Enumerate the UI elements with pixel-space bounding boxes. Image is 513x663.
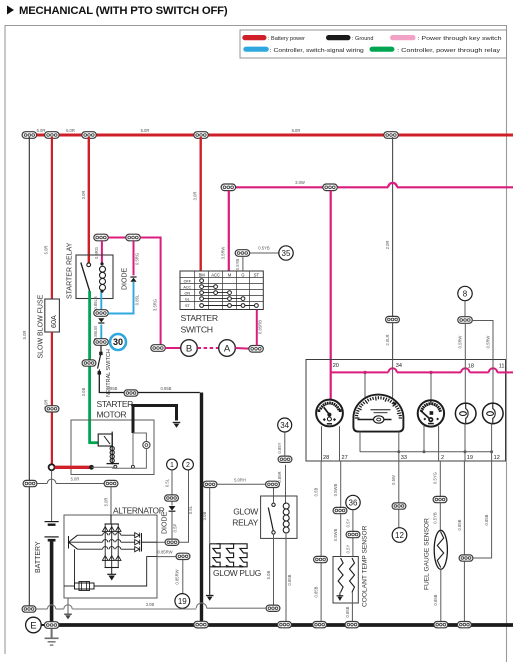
wire thick black engine ground drop [200,393,203,624]
svg-text:5.0R: 5.0R [22,331,27,340]
svg-text:34: 34 [396,363,402,369]
wire alternator case ground [67,598,69,614]
starter relay coil top node [100,262,103,265]
svg-text:DIODE: DIODE [122,268,129,291]
svg-text:0.5RW: 0.5RW [485,336,490,349]
wire pink key bus [235,186,388,188]
svg-text:0.5W: 0.5W [391,475,396,485]
svg-text:34: 34 [280,421,289,430]
svg-text:0.85B: 0.85B [433,594,438,605]
connector on pin34 wire [386,316,400,322]
svg-text:0.5WB: 0.5WB [333,529,338,542]
neutral switch contact lower [98,371,101,374]
wire pink pin20 drop to gauge [330,191,332,402]
legend ground swatch [326,35,351,40]
svg-text:12: 12 [395,531,404,540]
glow relay blade (open) [268,508,273,531]
node E (earth) [26,617,42,633]
node 2 (controller pin) [183,459,194,470]
svg-text:ST: ST [254,273,260,278]
junction ring fuse-battery-starter [49,464,55,470]
glow relay contact top [272,503,275,506]
wire diode to L run [171,512,173,539]
wire pink into B [165,347,180,349]
svg-text:0.85RW: 0.85RW [175,569,180,584]
wire gray tach right feed [392,360,394,399]
svg-text:0.5RG: 0.5RG [134,253,139,265]
svg-text:COOLANT TEMP SENSOR: COOLANT TEMP SENSOR [362,525,369,607]
svg-text:M: M [228,273,232,278]
junction dot gauge3 feed [429,371,432,374]
wire node36 to sensor [352,510,354,557]
alternator box [64,515,157,598]
junction dot common x424 [423,450,426,453]
wire pink link to diode tap [108,237,126,239]
alternator internals (bridge, stator, regulator) [64,515,157,591]
svg-text:0.5P: 0.5P [173,523,178,532]
wire IG to node 19 [182,560,184,594]
svg-text:30: 30 [113,337,123,347]
node 34 (controller pin) [278,418,292,432]
wire engine line [36,608,47,610]
svg-text:5.0R: 5.0R [66,128,75,133]
wire black neutral switch to ground run [99,375,200,393]
wire pin2 to fuel sensor [439,461,441,531]
svg-text:FUEL GAUGE SENSOR: FUEL GAUGE SENSOR [424,518,431,590]
wire red fuse drop upper [51,137,53,300]
indicator lamp L1 [455,403,476,424]
svg-text:5.0R: 5.0R [292,128,301,133]
svg-text:0.5B: 0.5B [313,487,318,496]
gauge G1 (oil pressure) [316,400,343,427]
wire tach bottom-right pin33 [398,432,400,461]
svg-text:0.85RW: 0.85RW [157,550,172,555]
legend battery power swatch [242,35,266,40]
wire gray G link to 35 [250,252,279,254]
wire gauge3 right pin2 [438,426,440,461]
wire pin12 jog to pin19 run [473,461,492,558]
wire thick ground bus [45,623,513,627]
connector ground bus engine [194,621,209,628]
node 30 (controller pin) [110,334,126,350]
node 1 (controller pin) [167,459,178,470]
starter motor ground [173,423,181,428]
wire blue below diode [100,325,102,339]
svg-text:0.85LB: 0.85LB [93,296,98,309]
svg-text:0.85B: 0.85B [287,574,292,585]
legend box [240,30,507,58]
wire cluster internal common [360,451,492,453]
wire dashed B to A [198,347,219,349]
glow relay K2 box [261,496,297,538]
connector pin28 run [314,556,328,562]
wire gray lamp feed right [472,321,493,360]
connector neutral switch node [94,339,109,346]
wire gray lamp2 feed in cluster [492,360,494,404]
node 19 (controller pin) [175,594,190,609]
connector pin33 run [392,503,406,509]
svg-text:0.5YG: 0.5YG [433,472,438,484]
svg-text:0.5RG: 0.5RG [94,247,99,259]
battery B1 [45,522,59,541]
neutral switch contact upper [99,352,102,355]
svg-text:3.0W: 3.0W [295,180,305,185]
svg-text:GL: GL [185,297,190,301]
starter relay coil bottom node [100,290,103,293]
junction dot common x465 [464,450,467,453]
svg-text:20: 20 [333,363,339,369]
wire green relay output [88,291,91,444]
starter motor solenoid and motor [98,432,150,469]
svg-text:5.0R: 5.0R [37,128,46,133]
glow plugs [210,544,247,595]
wire pin19 ground run [463,461,465,621]
wire red fuse drop lower [51,332,53,465]
svg-text:5.0R: 5.0R [141,128,150,133]
alternator case ground symbol [64,614,72,619]
svg-text:5.0R: 5.0R [71,477,80,482]
wire pin27 to coolant sensor [340,461,342,557]
svg-text:60A: 60A [49,315,58,328]
svg-text:0.85B: 0.85B [484,514,489,525]
svg-text:: Controller, switch-signal wi: : Controller, switch-signal wiring [270,48,364,54]
svg-text:0.85RB: 0.85RB [258,320,263,334]
wire pink up to ST contact [256,306,258,346]
connector ground bus glow coil [278,622,292,628]
node 35 (controller pin) [279,246,293,260]
connector pink after A [249,346,263,353]
wire pin33 run [398,461,400,528]
connector pins19-12 junction [459,555,473,561]
svg-text:ACC: ACC [183,285,191,289]
starter relay fixed contact [87,263,91,267]
starter relay K1 box [76,255,113,299]
svg-text:0.5YB: 0.5YB [433,512,438,524]
svg-text:BATTERY: BATTERY [35,541,42,573]
wire thick battery negative [50,540,54,623]
fuel gauge sensor [434,530,447,569]
connector alternator feed right [104,480,118,486]
svg-text:35: 35 [282,249,291,258]
wire gray gauge3 feed [430,372,432,401]
node 8 (controller pin) [458,286,472,300]
connector pink relay coil tap [94,234,109,241]
legend controller relay power swatch [370,47,395,52]
title text [7,5,228,17]
wire alternator feed [37,483,47,485]
wire solenoid contact link [92,466,116,468]
svg-text:1: 1 [170,462,174,469]
svg-text:ACC: ACC [211,273,220,278]
svg-text:: Power through key switch: : Power through key switch [418,36,502,42]
connector ground bus pin19 [458,622,472,628]
svg-text:ST: ST [185,304,190,308]
wire pin28 ground run [320,461,322,621]
svg-text:: Controller, power through re: : Controller, power through relay [397,48,500,54]
wire gauge1 right pin27 [339,426,341,461]
connector ground bus coolant [345,622,359,628]
starter switch SW1 contact table [180,271,263,310]
svg-text:0.85L: 0.85L [134,294,139,305]
connector on fuse wire [45,406,59,412]
wire fuel sensor to ground bus [440,569,442,621]
wire blue from D2 to node [108,282,133,314]
svg-text:GLOWRELAY: GLOWRELAY [232,507,258,528]
svg-text:MECHANICAL (WITH PTO SWITCH OF: MECHANICAL (WITH PTO SWITCH OFF) [19,5,228,17]
neutral switch blade [98,355,101,369]
junction dot solenoid contact [89,465,94,470]
svg-text:0.85Y: 0.85Y [277,442,282,453]
wire red battery bus [23,134,513,137]
glow plug ground [206,596,214,601]
starter motor box [71,420,154,475]
svg-text:5.0R: 5.0R [103,498,108,507]
svg-text:SLOW BLOW FUSE: SLOW BLOW FUSE [38,294,45,358]
svg-text:0.5YB: 0.5YB [235,259,240,271]
wire thick motor ground loop [133,406,177,434]
svg-text:GLOW PLUG: GLOW PLUG [213,568,261,578]
junction dot tach feed [363,371,366,374]
wire gray tach left feed [364,372,366,398]
wire thick red battery to solenoid [55,466,91,469]
connector bus B4 [194,132,209,139]
wire glow relay contact bottom [273,534,275,605]
earth ground symbol [45,629,59,645]
wire pink diode drop [133,241,135,275]
wire pink gauge bus [331,371,389,373]
svg-text:0.5YB: 0.5YB [258,246,270,251]
connector glow relay feed [266,481,280,487]
svg-text:19: 19 [467,455,473,461]
connector bus B5 [384,132,399,139]
svg-text:11: 11 [499,364,505,370]
wire battery positive [51,470,53,521]
wire lamp1 bottom pin19 [464,423,466,461]
wire gray lamp feed left [464,323,466,359]
svg-text:36: 36 [349,498,358,507]
slow blow fuse F1 60A box [45,299,60,332]
wire gray lamp1 feed in cluster [464,360,466,404]
connector pink bus left end [221,184,236,191]
connector glow relay coil feed [278,456,292,462]
connector ground bus battery [44,622,59,629]
svg-text:: Ground: : Ground [352,36,373,42]
junction dot common x398 [397,450,400,453]
junction dot common x491 [490,450,493,453]
svg-text:3.5RG: 3.5RG [152,299,157,311]
connector node8 [458,317,473,324]
connector left engine line [22,606,36,612]
wire gray node8 to connector [464,301,466,317]
wire node1 to diode [171,501,173,505]
svg-text:5.0B: 5.0B [266,570,271,579]
wire pink coil drop [101,241,103,264]
connector bus B2 [45,132,60,139]
wire glow relay coil to ground bus [285,533,287,621]
diode D2 (up) [130,277,136,282]
svg-text:0.5L: 0.5L [164,478,169,487]
wire pink to ST-link corner [140,238,160,345]
svg-text:19: 19 [178,597,187,606]
wire gray G column drop [242,256,244,271]
connector alternator L output [165,539,179,545]
svg-text:0.5Y: 0.5Y [345,544,350,553]
svg-text:ALTERNATOR: ALTERNATOR [113,506,165,516]
wire black to neutral switch [100,345,102,352]
connector pink diode tap [126,234,141,241]
starter relay blade (open) [81,263,90,292]
wire green into solenoid [90,441,99,444]
diode D3 (down) [169,506,176,511]
svg-text:2.0LR: 2.0LR [385,334,390,345]
connector pink bus pin20 tap [323,184,338,191]
wire glow relay contact top feed [273,488,275,504]
coolant temp sensor [333,557,358,604]
connector bus B3 [82,132,97,139]
svg-text:3.0B: 3.0B [146,602,155,607]
connector ground bus fuel [434,622,448,628]
connector on green wire [82,360,96,366]
wire gauge3 left to common [423,426,425,452]
wire alternator L run [157,470,189,542]
connector node1 [165,495,179,501]
connector circle A [219,340,236,357]
connector glow relay to engine line [266,605,280,611]
wire node1 drop [171,470,173,495]
svg-text:B: B [186,343,192,354]
gauge G3 (coolant temp) [418,400,444,426]
svg-text:5.0RH: 5.0RH [234,477,246,482]
gauge G2 (tachometer) [353,395,403,432]
svg-text:2.0R: 2.0R [385,241,390,250]
svg-text:0.85B: 0.85B [107,386,118,391]
svg-text:3.5RW: 3.5RW [221,247,226,260]
wire gauge1 left pin28 [321,426,323,461]
svg-text:0.5L: 0.5L [188,505,193,514]
connector pin27 run [333,507,347,513]
svg-text:A: A [224,343,231,354]
wire pink M-column drop [228,191,230,271]
diode D1 (down) [98,318,104,323]
wire coolant sensor to ground bus [351,593,353,622]
wire lamp2 bottom pin12 [491,423,493,461]
wire E link [41,624,45,626]
connector alternator IG [176,553,190,559]
svg-text:0.5WB: 0.5WB [333,484,338,497]
wire pink after A [235,347,249,350]
legend key switch power swatch [390,35,416,40]
node 36 (controller pin) [346,495,360,509]
wire glow feed run [203,483,265,485]
svg-text:0.5Y: 0.5Y [345,518,350,527]
svg-text:ON: ON [185,291,191,295]
svg-text:33: 33 [401,455,407,461]
wire glow plug feed drop [209,488,211,544]
connector alternator feed left [23,480,37,486]
wire blue coil to connector [100,293,102,311]
svg-text:5.0R: 5.0R [44,246,49,255]
svg-text:0.5RW: 0.5RW [458,336,463,349]
connector pin2 run [433,496,447,502]
connector 1.25 G feed [235,250,250,257]
wire alternator IG output [157,556,176,558]
connector bus B1 [22,132,36,139]
svg-text:: Battery power: : Battery power [268,36,305,42]
svg-text:2: 2 [186,462,190,469]
connector circle B [181,340,198,357]
svg-text:STARTERSWITCH: STARTERSWITCH [181,313,218,335]
svg-text:0.85B: 0.85B [345,606,350,617]
svg-text:3.0B: 3.0B [81,387,86,396]
connector blue node [94,310,109,317]
starter relay coil [100,266,106,290]
glow relay coil [283,503,289,533]
svg-text:3.0R: 3.0R [81,191,86,200]
svg-text:28: 28 [323,455,329,461]
svg-text:8: 8 [463,289,468,298]
neutral switch arrow [97,369,101,374]
svg-text:3.0B: 3.0B [202,511,207,520]
svg-text:27: 27 [342,455,348,461]
wire glow relay coil feed [285,465,287,504]
connector neutral ground run [124,390,138,396]
svg-text:3.0R: 3.0R [192,192,197,201]
connector pink before B [151,345,166,352]
connector node36 run [346,531,360,537]
connector glow plug feed [203,481,217,487]
wire black bus-to-alternator drop [28,137,30,607]
svg-text:STARTER RELAY: STARTER RELAY [67,242,74,299]
svg-text:G: G [241,273,244,278]
connector ground bus pin28 [313,622,327,628]
wire alternator B+ drop [110,487,112,515]
instrument cluster box [306,360,506,462]
svg-text:2: 2 [441,455,444,461]
svg-text:DIODE: DIODE [162,512,169,535]
indicator lamp L2 [483,403,504,424]
wire gray bus to cluster pin 34 [392,137,394,360]
svg-text:12: 12 [494,455,500,461]
wire red key switch BM feed [199,137,201,271]
legend controller switch-signal swatch [243,47,268,52]
wire red relay feed [88,137,90,264]
node 12 (controller pin) [392,528,407,543]
wire node34 down [284,432,286,456]
svg-text:E: E [30,620,36,631]
svg-text:0.85B: 0.85B [161,386,172,391]
svg-text:0.85B: 0.85B [457,519,462,530]
svg-text:OFF: OFF [184,279,192,283]
glow relay contact bottom [272,531,275,534]
svg-text:0.85B: 0.85B [313,586,318,597]
svg-text:BM: BM [199,273,206,278]
svg-text:0.85LW: 0.85LW [93,326,98,340]
wire tach bottom-left to common [359,432,361,452]
